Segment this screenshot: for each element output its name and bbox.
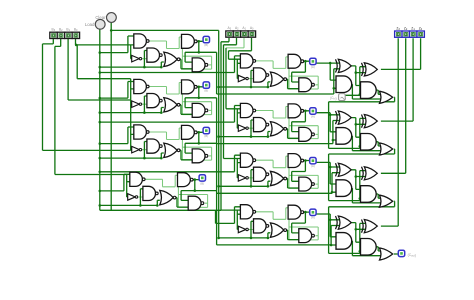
NAND gate A04 — [288, 54, 301, 68]
XOR gate X3a — [336, 216, 338, 229]
NAND gate B01 — [134, 34, 147, 48]
input pin A0 — [248, 31, 255, 37]
NAND gate A21 — [240, 153, 253, 167]
NAND gate A02 — [254, 68, 267, 82]
input pin B0 — [72, 32, 79, 38]
svg-text:(A): (A) — [311, 216, 315, 220]
NAND gate B24 — [182, 125, 195, 139]
NAND gate A12 — [254, 117, 267, 131]
NOR gate A23 — [270, 171, 283, 185]
svg-text:B2: B2 — [59, 27, 63, 32]
NAND gate B32 — [143, 186, 156, 200]
NOR gate B13 — [164, 98, 177, 112]
NOT gate B1n — [132, 101, 140, 108]
input pin B1 — [65, 32, 72, 38]
XOR gate X1a — [336, 111, 338, 124]
svg-text:A3: A3 — [228, 26, 232, 31]
NOT gate A3n — [238, 226, 246, 233]
LED A0led — [310, 58, 316, 64]
NAND gate A01 — [240, 54, 253, 68]
wire full-adder internal — [351, 66, 381, 256]
NAND gate A34 — [288, 205, 301, 219]
LED A3led — [310, 209, 316, 215]
svg-text:(B): (B) — [204, 43, 208, 47]
input pin A3 — [226, 31, 233, 37]
NOR gate B33 — [160, 190, 173, 204]
carry-in constant — [339, 94, 346, 101]
wire latch A2 internal (logic-1) — [248, 156, 318, 188]
svg-text:B0: B0 — [74, 27, 78, 32]
LED A1led — [310, 108, 316, 114]
wire Load and Clear taps to register A — [100, 73, 268, 238]
wire Load distribution — [100, 29, 235, 223]
OR gate O1 — [380, 143, 393, 155]
NAND gate B12 — [147, 94, 160, 108]
NAND gate A14 — [288, 104, 301, 118]
svg-text:Clear: Clear — [95, 15, 106, 20]
NAND gate B15 — [192, 103, 205, 117]
wire register B to adder bus — [195, 52, 342, 245]
wire input A stair — [221, 38, 252, 230]
LED A2led — [310, 158, 316, 164]
NAND gate B22 — [147, 139, 160, 153]
output pin Z2 — [402, 31, 409, 37]
NAND gate A25 — [299, 177, 312, 191]
XOR gate X1b — [362, 115, 364, 128]
NAND gate A35 — [299, 229, 312, 243]
NOR gate A33 — [270, 223, 283, 237]
NAND gate A22 — [254, 167, 267, 181]
svg-text:B1: B1 — [66, 27, 70, 32]
NOT gate B2n — [132, 146, 140, 153]
svg-text:(Cin): (Cin) — [330, 96, 336, 101]
svg-text:A2: A2 — [235, 26, 239, 31]
OR gate O3 — [380, 248, 393, 260]
NAND gate A15 — [299, 127, 312, 141]
wire latch A0 internal (logic-1) — [248, 57, 318, 89]
wire input A stair (logic-1) — [226, 38, 244, 48]
LED B3led — [199, 175, 205, 181]
wire latch A2 internal — [235, 155, 310, 188]
NAND gate B04 — [182, 34, 195, 48]
LED B2led — [203, 127, 209, 133]
node junctions — [75, 29, 361, 253]
svg-text:B3: B3 — [52, 27, 56, 32]
OR gate O0 — [380, 91, 393, 103]
NAND gate A11 — [240, 103, 253, 117]
button Load — [95, 19, 105, 29]
NAND gate B11 — [134, 79, 147, 93]
NOR gate A03 — [270, 72, 283, 86]
wire latch B3 internal — [124, 174, 199, 207]
input pin B3 — [50, 32, 57, 38]
svg-text:A0: A0 — [250, 26, 254, 31]
wire register A to adder — [317, 63, 342, 237]
AND gate N2a — [336, 180, 352, 197]
NOR gate B03 — [164, 52, 177, 66]
NAND gate B14 — [182, 80, 195, 94]
NAND gate B02 — [147, 48, 160, 62]
AND gate N0a — [336, 76, 352, 93]
button Clear — [107, 13, 117, 23]
NAND gate A31 — [240, 205, 253, 219]
wire latch B3 internal (logic-1) — [138, 175, 208, 207]
output pin Z3 — [395, 31, 402, 37]
NAND gate B31 — [130, 172, 143, 186]
NAND gate B34 — [178, 173, 191, 187]
wire latch B0 internal (logic-1) — [142, 37, 212, 69]
wire latch A1 internal — [235, 106, 310, 139]
svg-text:(Cout): (Cout) — [408, 253, 416, 258]
LED B1led — [203, 82, 209, 88]
AND gate N3b — [361, 239, 377, 256]
svg-text:(A): (A) — [311, 114, 315, 118]
NOR gate A13 — [270, 122, 283, 136]
NOT gate A2n — [238, 175, 246, 182]
input pin A1 — [241, 31, 248, 37]
output pin Z0 — [417, 31, 424, 37]
NOR gate B23 — [164, 143, 177, 157]
AND gate N2b — [361, 186, 377, 203]
OR gate O2 — [380, 195, 393, 207]
NAND gate B35 — [188, 196, 201, 210]
wire carry chain — [329, 95, 398, 254]
svg-text:(B): (B) — [204, 134, 208, 138]
svg-text:Z2: Z2 — [404, 26, 408, 31]
svg-text:(B): (B) — [204, 89, 208, 93]
svg-text:(B): (B) — [200, 181, 204, 185]
LED Cout — [398, 250, 404, 256]
NAND gate B25 — [192, 149, 205, 163]
wire Clear distribution — [111, 23, 219, 238]
wire latch A3 internal — [235, 207, 310, 240]
svg-text:Load: Load — [85, 22, 95, 27]
XOR gate X0a — [336, 59, 338, 72]
NAND gate B05 — [192, 58, 205, 72]
input pin B2 — [57, 32, 64, 38]
wire latch B1 internal — [128, 82, 203, 115]
wire latch B2 internal — [128, 127, 203, 160]
NAND gate A24 — [288, 154, 301, 168]
wire latch A3 internal (logic-1) — [248, 208, 318, 240]
XOR gate X0b — [362, 63, 364, 76]
XOR gate X3b — [362, 220, 364, 233]
svg-text:A1: A1 — [242, 26, 246, 31]
XOR gate X2b — [362, 167, 364, 180]
AND gate N3a — [336, 233, 352, 250]
AND gate N1b — [361, 134, 377, 151]
NAND gate A05 — [299, 78, 312, 92]
AND gate N0b — [361, 82, 377, 99]
wire latch B1 internal (logic-1) — [142, 83, 212, 115]
wire sum outputs to Z pins — [381, 38, 421, 226]
wire input B stair — [43, 38, 135, 197]
NOT gate A1n — [238, 125, 246, 131]
XOR gate X2a — [336, 163, 338, 176]
wire latch A1 internal (logic-1) — [248, 107, 318, 139]
NOT gate B0n — [132, 55, 140, 62]
svg-text:(A): (A) — [311, 164, 315, 168]
wire latch B2 internal (logic-1) — [142, 128, 212, 160]
NOT gate A0n — [238, 75, 246, 82]
svg-text:Z3: Z3 — [396, 26, 400, 31]
NAND gate B21 — [134, 125, 147, 139]
NOT gate B3n — [128, 194, 136, 201]
LED B0led — [203, 36, 209, 42]
svg-text:(A): (A) — [311, 65, 315, 69]
NAND gate A32 — [254, 219, 267, 233]
input pin A2 — [233, 31, 240, 37]
wire latch B0 internal — [128, 36, 203, 69]
AND gate N1a — [336, 128, 352, 145]
output pin Z1 — [410, 31, 417, 37]
wire latch A0 internal — [235, 56, 310, 89]
